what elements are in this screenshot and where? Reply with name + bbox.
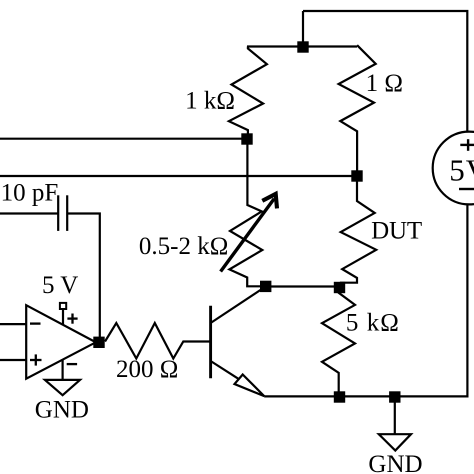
svg-text:DUT: DUT bbox=[371, 218, 422, 245]
svg-text:5 V: 5 V bbox=[42, 272, 78, 299]
svg-text:GND: GND bbox=[35, 397, 89, 424]
svg-text:0.5-2 kΩ: 0.5-2 kΩ bbox=[139, 233, 228, 260]
svg-text:10 pF: 10 pF bbox=[1, 179, 59, 206]
svg-text:5 kΩ: 5 kΩ bbox=[346, 310, 399, 337]
svg-text:V: V bbox=[466, 153, 474, 188]
svg-text:200 Ω: 200 Ω bbox=[116, 356, 178, 383]
svg-text:GND: GND bbox=[368, 451, 422, 474]
svg-text:1 kΩ: 1 kΩ bbox=[185, 87, 235, 114]
svg-text:1 Ω: 1 Ω bbox=[366, 70, 403, 97]
svg-text:5: 5 bbox=[449, 153, 465, 188]
